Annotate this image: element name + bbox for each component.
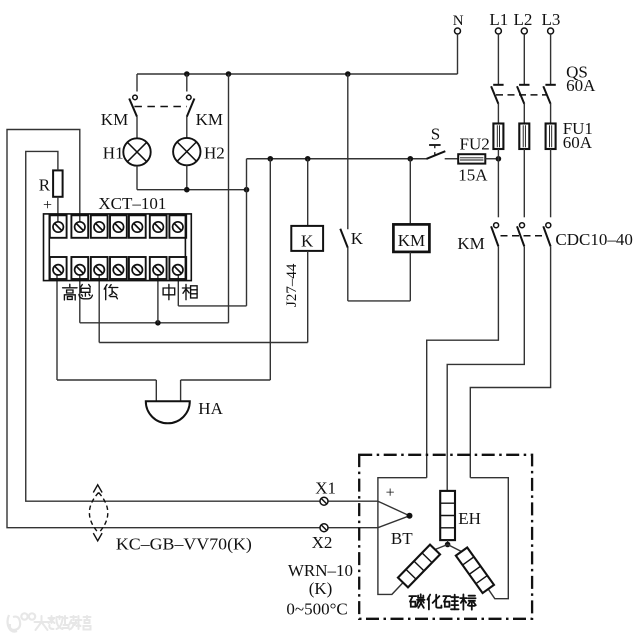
svg-text:WRN–10: WRN–10: [288, 561, 353, 580]
wire L2 top: [523, 34, 525, 85]
terminal XCT top 6: [150, 215, 167, 238]
svg-text:L1: L1: [489, 10, 508, 29]
svg-text:KM: KM: [398, 231, 425, 250]
wire L3 QS to FU1: [550, 104, 552, 124]
wire star to right element: [448, 545, 462, 552]
svg-text:XCT–101: XCT–101: [98, 194, 166, 213]
wire H1 branch: [136, 74, 138, 92]
heating element EH: [440, 491, 455, 540]
node zhong junction: [155, 320, 161, 326]
resistor R: [53, 170, 63, 196]
wire L1 top: [497, 34, 499, 85]
svg-text:KM: KM: [196, 110, 223, 129]
wire L3 FU1 to KM: [550, 149, 552, 217]
wire L2 FU1 to KM: [523, 149, 525, 217]
svg-text:60A: 60A: [566, 76, 596, 95]
wire di terminal drop: [98, 275, 100, 343]
watermark char kua: [63, 616, 77, 630]
lamp H2: [173, 138, 200, 165]
svg-text:N: N: [453, 13, 464, 29]
svg-text:15A: 15A: [458, 166, 488, 185]
svg-text:KC–GB–VV70(K): KC–GB–VV70(K): [116, 535, 252, 554]
wire zhong terminal drop: [157, 275, 159, 323]
relay K: [291, 226, 323, 251]
wire heater left path: [378, 478, 427, 595]
cable marker chevron down: [93, 533, 102, 541]
wire star to left element: [435, 545, 448, 550]
wire R bottom: [57, 197, 59, 222]
node HA branch: [268, 156, 274, 162]
wire K contact bottom: [347, 248, 349, 301]
wire L1 FU1 to KM: [497, 149, 499, 217]
terminal X2: [320, 524, 328, 532]
node FU2 on L1: [496, 156, 502, 162]
wire bell left lead: [155, 380, 157, 401]
wire bell right lead: [180, 380, 182, 401]
label di (low): [104, 284, 118, 299]
svg-text:K: K: [301, 231, 314, 250]
wire coil bottom bus: [348, 300, 411, 302]
wire xiang bus: [178, 305, 246, 307]
terminal XCT top 4: [110, 215, 127, 238]
wire KM coil bottom: [409, 252, 411, 301]
label tan (carbon): [409, 594, 424, 608]
wire KM coil drop: [409, 159, 411, 225]
contact KM pole L1: [491, 223, 499, 247]
fuse FU1 pole L3: [546, 124, 556, 150]
svg-text:HA: HA: [198, 399, 223, 418]
svg-text:KM: KM: [101, 110, 128, 129]
wire xiang terminal drop: [177, 275, 179, 306]
terminal N: [455, 28, 461, 34]
wire L3 top: [550, 34, 552, 85]
terminal XCT bottom 5: [129, 257, 146, 279]
terminal XCT bottom 4: [110, 257, 127, 279]
dashed link QS: [496, 94, 547, 96]
wire X2 to BT: [328, 527, 378, 529]
label gao (high): [63, 284, 77, 300]
label gui (silicon): [443, 595, 458, 610]
heater enclosure (dash-dot box): [359, 455, 532, 619]
terminal XCT bottom 6: [150, 257, 167, 279]
thermocouple BT: [378, 501, 410, 528]
wire outer loop t2 to X2: [7, 130, 320, 528]
node KM coil branch: [408, 156, 414, 162]
contact K: [340, 229, 348, 248]
terminal XCT bottom 7: [169, 257, 186, 279]
wire zong-zhong bus: [80, 322, 229, 324]
wire X1 to BT: [328, 500, 378, 502]
wire H2 branch: [186, 74, 188, 92]
lamp H1: [123, 138, 150, 165]
terminal XCT top 3: [91, 215, 108, 238]
wire L1 to heater: [427, 246, 499, 477]
svg-text:BT: BT: [391, 529, 413, 548]
terminal XCT top 7: [169, 215, 186, 238]
dashed link lamp contacts: [134, 106, 187, 108]
wire contact to H1: [136, 117, 138, 139]
wire HA left link: [57, 379, 156, 381]
terminal X1: [320, 497, 328, 505]
svg-text:+: +: [386, 485, 395, 502]
switch QS pole L1: [491, 85, 504, 104]
terminal XCT bottom 2: [71, 257, 88, 279]
terminal block XCT-101 outline: [44, 214, 192, 281]
svg-text:L2: L2: [513, 10, 532, 29]
wire S to FU2: [445, 158, 459, 160]
terminal L1: [495, 28, 501, 34]
terminal XCT top 5: [129, 215, 146, 238]
wire K contact branch: [347, 74, 349, 229]
wire L1 QS to FU1: [497, 104, 499, 124]
node BT apex: [407, 513, 413, 519]
wire H1 bottom: [136, 166, 138, 190]
svg-text:0~500°C: 0~500°C: [286, 600, 347, 619]
fuse FU1 pole L2: [519, 124, 529, 150]
wire lamp bottom bus: [137, 189, 247, 191]
watermark char da: [35, 616, 49, 630]
svg-text:H2: H2: [204, 143, 225, 162]
wire control vertical: [246, 159, 248, 306]
wire zong terminal drop: [79, 275, 81, 323]
wire gao terminal drop: [56, 275, 58, 380]
label zong (common): [79, 285, 93, 299]
terminal XCT bottom 1: [50, 257, 67, 279]
contact KM lamp H1: [129, 95, 137, 117]
svg-text:H1: H1: [103, 143, 124, 162]
svg-text:X2: X2: [312, 533, 333, 552]
wire di bus to K relay: [99, 342, 308, 344]
node lamp bus to control: [244, 187, 250, 193]
terminal L2: [521, 28, 527, 34]
fuse FU1 pole L1: [493, 124, 503, 150]
wire N drop: [457, 34, 459, 74]
wire contact to H2: [186, 117, 188, 138]
svg-text:CDC10–40: CDC10–40: [555, 230, 632, 249]
svg-text:KM: KM: [457, 234, 484, 253]
wire L3 to heater: [470, 246, 550, 477]
node heater star point: [445, 542, 451, 548]
dashed link KM contacts: [501, 235, 547, 237]
wire neutral drop: [228, 74, 230, 323]
switch S: [426, 145, 445, 159]
wire H2 bottom: [186, 165, 188, 189]
contact KM lamp H2: [187, 95, 195, 117]
svg-text:60A: 60A: [563, 133, 593, 152]
watermark char shu: [49, 616, 63, 629]
switch QS pole L3: [543, 85, 556, 104]
wire L2 QS to FU1: [523, 104, 525, 124]
wire K box bottom: [307, 251, 309, 343]
node H2 on lamp bus: [184, 187, 190, 193]
heating element left: [398, 545, 440, 588]
wire HA right link: [181, 379, 271, 381]
svg-text:K: K: [351, 229, 364, 248]
wire HA branch drop: [269, 159, 271, 380]
wire K coil drop: [307, 159, 309, 226]
node K contact branch: [345, 71, 351, 77]
svg-text:EH: EH: [458, 509, 481, 528]
wire inner loop R to X1: [26, 151, 320, 501]
node K coil branch: [305, 156, 311, 162]
watermark char jing: [77, 616, 91, 630]
wire top neutral bus: [137, 73, 458, 75]
wire EH bottom: [447, 540, 449, 544]
svg-text:X1: X1: [315, 478, 336, 497]
svg-text:(K): (K): [309, 579, 333, 598]
terminal XCT top 1: [50, 215, 67, 238]
label xiang (phase): [182, 284, 197, 299]
svg-text:FU2: FU2: [460, 135, 490, 154]
heating element right: [456, 548, 494, 594]
fuse FU2: [458, 154, 485, 163]
svg-text:+: +: [43, 197, 52, 214]
cable marker chevron up: [93, 485, 102, 493]
terminal L3: [548, 28, 554, 34]
terminal XCT bottom 3: [91, 257, 108, 279]
node neutral drop: [226, 71, 232, 77]
wire L2 to heater: [447, 246, 524, 491]
svg-text:L3: L3: [542, 10, 561, 29]
svg-text:R: R: [39, 176, 51, 195]
svg-text:S: S: [431, 125, 440, 144]
svg-text:J27–44: J27–44: [284, 263, 300, 307]
contactor coil KM: [393, 224, 429, 252]
contact KM pole L2: [517, 223, 525, 247]
label hua: [427, 595, 441, 610]
wire control line: [247, 158, 427, 160]
wire FU2 to L1: [485, 158, 498, 160]
label zhong (middle): [163, 284, 175, 299]
cable marker lens: [89, 493, 107, 534]
switch QS pole L2: [517, 85, 530, 104]
contact KM pole L3: [543, 223, 551, 247]
node H2 branch on top bus: [184, 71, 190, 77]
bell HA: [146, 401, 190, 423]
label bang (rod): [460, 594, 476, 609]
wire heater right path: [470, 478, 508, 599]
watermark logo: [8, 613, 36, 631]
terminal XCT top 2: [71, 215, 88, 238]
